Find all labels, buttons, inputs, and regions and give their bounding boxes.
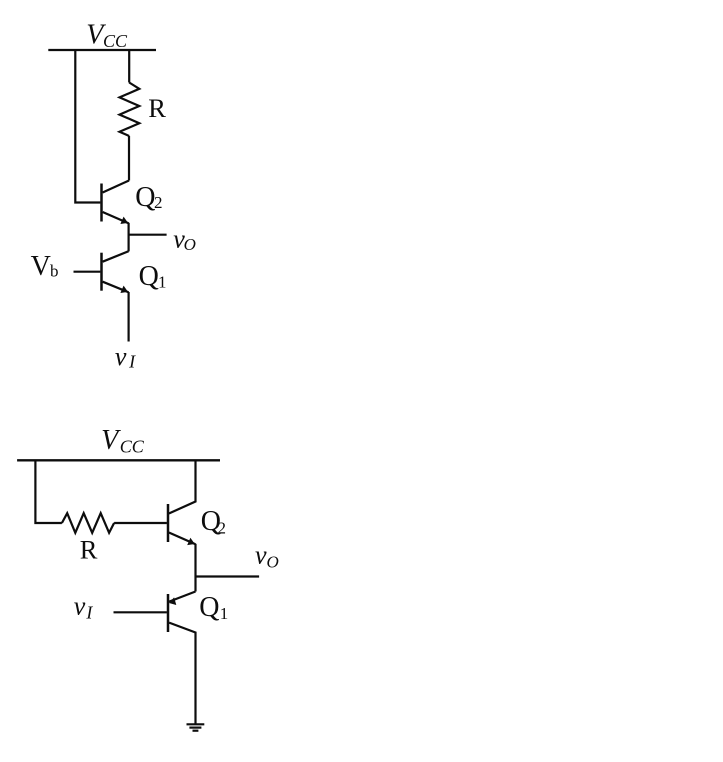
label Q2 (bottom circuit) xyxy=(201,506,226,538)
label vO (top circuit) xyxy=(173,224,196,254)
svg-text:O: O xyxy=(267,552,279,571)
transistor Q2 base bar (top circuit) xyxy=(100,184,103,222)
resistor R (top circuit) xyxy=(120,83,140,137)
label Q1 (bottom circuit) xyxy=(199,592,228,623)
svg-text:O: O xyxy=(184,235,196,254)
node VCC (top circuit) rail xyxy=(48,49,156,51)
label VCC (bottom circuit) xyxy=(101,425,145,456)
label Q1 (top circuit) xyxy=(139,261,167,292)
svg-text:1: 1 xyxy=(220,604,229,623)
svg-text:V: V xyxy=(101,425,121,456)
svg-text:v: v xyxy=(255,540,267,569)
wire VCC to Q2 base (left drop, top circuit) xyxy=(75,50,100,203)
resistor R (bottom circuit) xyxy=(62,513,114,533)
transistor Q1 emitter lead with arrow (top circuit) xyxy=(103,282,129,293)
label vI (top circuit) xyxy=(115,342,136,372)
transistor Q2 collector lead (bottom circuit) xyxy=(169,460,196,513)
svg-text:CC: CC xyxy=(120,436,145,456)
wire Vb to Q1 base (top circuit) xyxy=(74,271,101,273)
wire output node vO (top circuit) xyxy=(129,234,167,236)
wire Q2 emitter to Q1 emitter (bottom circuit) xyxy=(194,544,196,592)
label Q2 (top circuit) xyxy=(135,182,162,213)
transistor Q2 collector lead (top circuit) xyxy=(103,181,129,193)
wire output node vO (bottom circuit) xyxy=(196,575,260,577)
svg-text:1: 1 xyxy=(158,273,167,292)
transistor Q2 base bar (bottom circuit) xyxy=(167,504,170,542)
svg-text:R: R xyxy=(80,535,98,565)
svg-text:R: R xyxy=(148,93,166,123)
label vO (bottom circuit) xyxy=(255,540,279,571)
transistor Q2 emitter lead with arrow (top circuit) xyxy=(103,212,129,223)
label vI (bottom circuit) xyxy=(74,592,94,623)
wire VCC to resistor R (top circuit) xyxy=(128,50,130,83)
svg-text:b: b xyxy=(50,262,59,281)
node VCC (bottom circuit) rail xyxy=(17,459,220,461)
label VCC (top circuit) xyxy=(86,20,128,52)
svg-text:V: V xyxy=(31,251,51,282)
transistor Q1 base bar (top circuit) xyxy=(100,253,103,291)
transistor Q1 base bar (bottom circuit) xyxy=(167,594,170,632)
transistor Q1 collector lead (bottom circuit) xyxy=(169,623,195,724)
svg-text:I: I xyxy=(85,602,93,622)
transistor Q1 collector lead (top circuit) xyxy=(103,251,129,262)
svg-text:Q: Q xyxy=(199,592,219,623)
svg-text:2: 2 xyxy=(218,518,227,537)
wire vI to Q1 base (bottom circuit) xyxy=(114,611,167,613)
wire Q1 emitter to vI (top circuit) xyxy=(128,292,130,342)
svg-text:CC: CC xyxy=(103,31,128,51)
label Vb (top circuit) xyxy=(31,251,59,282)
wire Q2 emitter to Q1 collector (top circuit) xyxy=(128,223,130,252)
wire VCC to resistor R (bottom circuit) xyxy=(35,460,62,523)
svg-text:Q: Q xyxy=(139,261,159,292)
ground xyxy=(187,723,205,725)
wire resistor R to Q2 collector (top circuit) xyxy=(128,136,130,181)
svg-text:I: I xyxy=(128,352,136,372)
svg-text:2: 2 xyxy=(154,193,163,212)
transistor Q2 emitter lead with arrow (bottom circuit) xyxy=(169,533,196,545)
svg-text:Q: Q xyxy=(135,182,155,213)
svg-text:v: v xyxy=(74,592,86,621)
transistor Q1 emitter lead with arrow (bottom circuit) xyxy=(169,592,195,602)
svg-text:v: v xyxy=(115,342,127,371)
wire resistor R to Q2 base (bottom circuit) xyxy=(114,522,167,524)
